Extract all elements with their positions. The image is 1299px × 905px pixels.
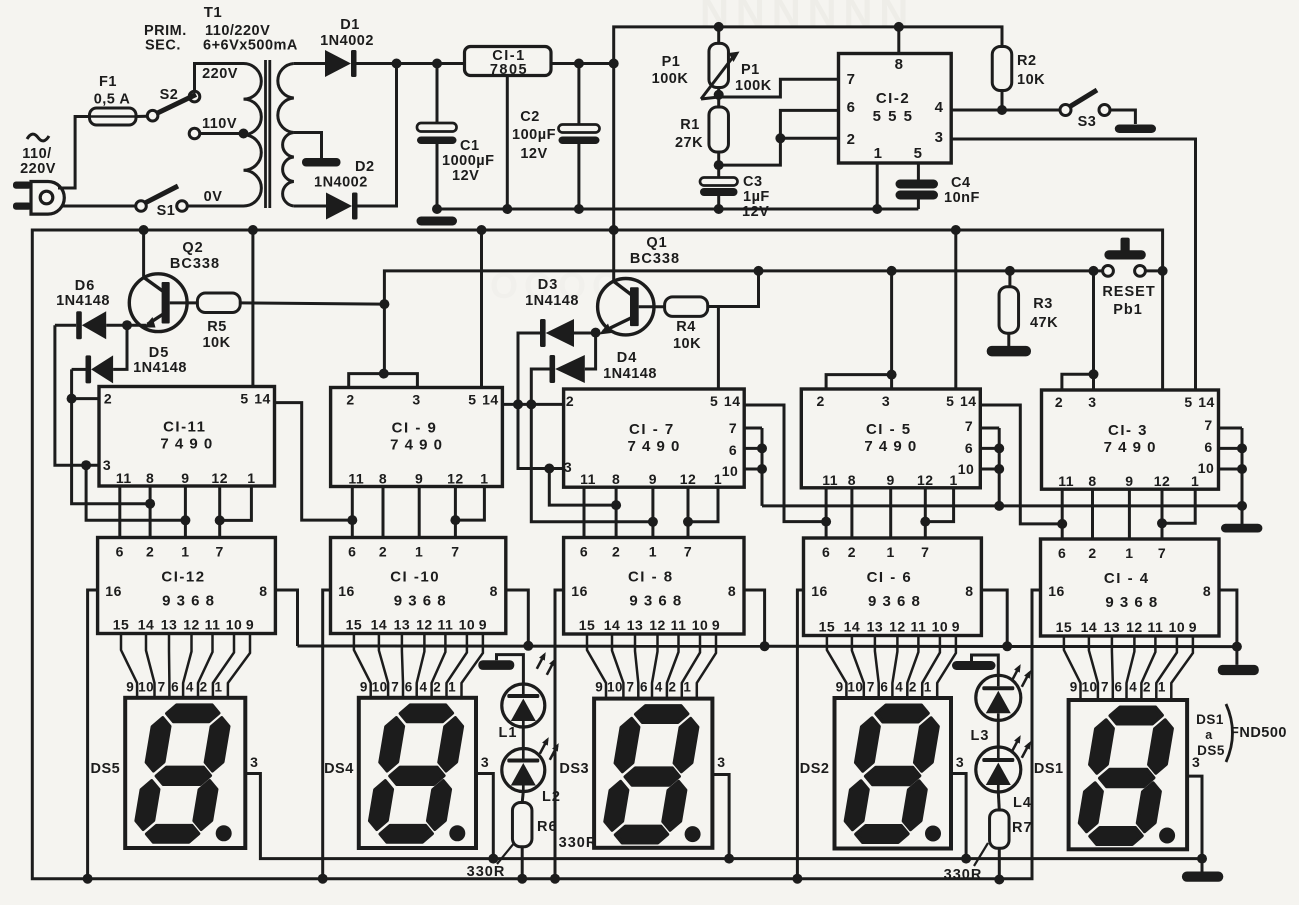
svg-text:CI - 7: CI - 7: [629, 421, 675, 438]
svg-text:10nF: 10nF: [944, 190, 980, 206]
wires CI-5 outputs to decoder: [825, 488, 828, 538]
wire R4 to reset bus: [708, 271, 759, 307]
svg-text:3: 3: [935, 129, 944, 146]
svg-text:9: 9: [836, 680, 844, 695]
svg-text:1: 1: [683, 680, 691, 695]
svg-text:7: 7: [626, 680, 634, 695]
svg-text:12V: 12V: [520, 146, 547, 162]
junction R2 bottom pin4: [997, 105, 1007, 115]
wire CI-12 pin8 to bus: [275, 590, 297, 646]
svg-text:11: 11: [348, 471, 364, 487]
svg-text:7: 7: [847, 71, 856, 88]
center tap ground bar: [302, 158, 341, 167]
svg-text:4: 4: [655, 680, 663, 695]
svg-text:16: 16: [1048, 583, 1065, 599]
light arrows L1: [537, 655, 545, 669]
svg-text:a: a: [1205, 728, 1213, 742]
junction ground rail CI-5: [994, 501, 1004, 511]
svg-text:4: 4: [1129, 680, 1137, 695]
svg-text:1: 1: [1125, 545, 1133, 561]
svg-text:L2: L2: [542, 789, 561, 805]
svg-text:CI - 5: CI - 5: [866, 421, 912, 438]
svg-text:220V: 220V: [202, 66, 238, 82]
wire CI-6 pin16 to +5V rail: [797, 590, 803, 879]
svg-text:D4: D4: [617, 350, 638, 366]
display DS3 FND500: [594, 699, 712, 848]
svg-text:7 4 9 0: 7 4 9 0: [390, 437, 443, 454]
LED L1: [502, 684, 545, 727]
svg-text:9: 9: [952, 619, 960, 635]
switch S1: [136, 201, 147, 212]
LED L3: [976, 675, 1021, 720]
wires CI-6 to DS2 segment fan: [827, 636, 847, 699]
wire DS3 pin3: [712, 775, 729, 859]
svg-text:11: 11: [580, 471, 596, 487]
svg-text:C4: C4: [951, 175, 971, 191]
svg-text:7: 7: [216, 544, 224, 560]
junction 555 pin1 ground: [872, 204, 882, 214]
svg-text:S1: S1: [157, 203, 176, 219]
svg-text:14: 14: [371, 617, 388, 633]
ground bar counters: [1221, 524, 1262, 533]
svg-text:C3: C3: [743, 174, 763, 190]
junction P1 top: [714, 22, 724, 32]
svg-text:CI-12: CI-12: [161, 569, 205, 586]
svg-text:8: 8: [379, 471, 387, 487]
svg-text:14: 14: [604, 617, 621, 633]
junction pin2 wire: [67, 394, 77, 404]
svg-text:10: 10: [459, 617, 476, 633]
svg-text:15: 15: [1056, 619, 1073, 635]
ground rail under counters: [762, 504, 1242, 507]
svg-text:220V: 220V: [20, 161, 56, 177]
svg-text:11: 11: [437, 617, 453, 633]
wire plug to fuse: [58, 117, 90, 189]
transformer T1 secondary winding: [278, 64, 294, 207]
svg-text:110/: 110/: [22, 146, 51, 162]
svg-text:P1: P1: [741, 62, 760, 78]
svg-text:7: 7: [1101, 680, 1109, 695]
IC CI-12 9368: [98, 538, 276, 634]
wire L3 to L4: [997, 721, 1000, 748]
svg-text:8: 8: [259, 583, 267, 599]
svg-text:2: 2: [566, 393, 574, 409]
svg-text:9: 9: [1070, 680, 1078, 695]
svg-text:12: 12: [649, 617, 666, 633]
potentiometer P1 100K: [717, 27, 720, 44]
svg-text:1: 1: [874, 145, 883, 162]
svg-text:7: 7: [921, 544, 929, 560]
svg-text:CI - 4: CI - 4: [1104, 570, 1150, 587]
diode D6 1N4148: [76, 311, 82, 339]
svg-text:14: 14: [844, 619, 861, 635]
svg-text:8: 8: [895, 56, 904, 73]
svg-text:C1: C1: [460, 138, 480, 154]
diode D3 1N4148: [540, 319, 546, 347]
wire 555 pin 4 to S3: [951, 109, 1060, 112]
transistor Q2 BC338: [142, 230, 145, 277]
svg-text:7: 7: [965, 418, 973, 434]
svg-text:15: 15: [819, 619, 836, 635]
svg-text:13: 13: [394, 617, 411, 633]
wire secondary bottom to D2: [294, 205, 326, 208]
wires CI-7 outputs to decoder: [583, 487, 586, 537]
svg-text:14: 14: [1081, 619, 1098, 635]
svg-text:9: 9: [479, 617, 487, 633]
wires CI-3 outputs to decoder: [1061, 489, 1064, 539]
wire D4 to pin9 line B: [531, 369, 653, 522]
AC plug: [31, 182, 64, 215]
junction CI-6 pin16 rail: [792, 874, 802, 884]
svg-text:6: 6: [405, 680, 413, 695]
svg-text:100K: 100K: [652, 71, 689, 87]
svg-text:8: 8: [848, 472, 856, 488]
svg-text:NNNNNN: NNNNNN: [700, 0, 915, 35]
fuse F1: [90, 108, 137, 125]
reset bridge CI-5 pins 2 3: [826, 375, 892, 389]
svg-text:10: 10: [1198, 460, 1215, 476]
svg-text:DS1: DS1: [1196, 712, 1224, 727]
junction reset R4 node: [754, 266, 764, 276]
junction rectifier output: [392, 59, 402, 69]
ground rail of power supply: [437, 208, 918, 211]
svg-text:D6: D6: [75, 278, 96, 294]
svg-text:8: 8: [1203, 583, 1211, 599]
svg-text:9: 9: [1189, 619, 1197, 635]
svg-text:DS1: DS1: [1034, 761, 1064, 777]
capacitor C4 10nF: [917, 163, 920, 180]
svg-text:DS5: DS5: [90, 761, 120, 777]
display DS5 FND500: [125, 698, 245, 848]
svg-text:7: 7: [451, 544, 459, 560]
svg-text:16: 16: [105, 583, 122, 599]
supply tap bar L3: [952, 661, 996, 670]
svg-text:2: 2: [848, 544, 856, 560]
svg-text:11: 11: [910, 619, 926, 635]
IC CI-11 7490: [99, 387, 275, 487]
svg-text:BC338: BC338: [170, 256, 220, 272]
svg-text:1N4148: 1N4148: [603, 366, 657, 382]
svg-text:0V: 0V: [204, 189, 223, 205]
svg-text:10: 10: [722, 463, 739, 479]
wire frame to CI-5 pin5: [954, 230, 957, 389]
junction frame CI-11 Vcc: [248, 225, 258, 235]
junction Q1 emitter: [591, 328, 601, 338]
svg-text:330R: 330R: [467, 864, 506, 880]
svg-text:15: 15: [346, 617, 363, 633]
svg-text:13: 13: [627, 617, 644, 633]
svg-text:9: 9: [126, 680, 134, 695]
svg-text:12: 12: [917, 472, 934, 488]
AC source symbol ~: [27, 134, 49, 141]
junction C2 top: [574, 59, 584, 69]
svg-text:10K: 10K: [673, 336, 701, 352]
transformer T1 core: [264, 60, 267, 208]
svg-text:7: 7: [867, 680, 875, 695]
svg-text:CI -10: CI -10: [390, 569, 440, 586]
svg-text:10: 10: [692, 617, 709, 633]
svg-text:6: 6: [729, 442, 737, 458]
svg-text:6: 6: [1204, 439, 1212, 455]
svg-text:330R: 330R: [944, 867, 983, 883]
svg-text:0,5 A: 0,5 A: [94, 92, 131, 108]
svg-text:Q1: Q1: [646, 235, 667, 251]
reset bridge CI-3 pins 2 3: [1062, 374, 1094, 390]
junction D4 pin14 bus: [526, 399, 536, 409]
wires CI-8 to DS3 segment fan: [587, 634, 606, 699]
svg-text:3: 3: [956, 754, 964, 770]
svg-text:P1: P1: [662, 54, 681, 70]
wire P1 to pin7: [719, 79, 839, 97]
resistor R1 27K: [717, 88, 720, 108]
svg-text:12V: 12V: [742, 204, 769, 220]
svg-text:2: 2: [433, 680, 441, 695]
wire plug to S1: [62, 205, 136, 208]
junction pin2 wire: [775, 133, 785, 143]
svg-text:14: 14: [724, 393, 741, 409]
svg-text:7: 7: [1158, 545, 1166, 561]
wires CI-12 to DS5 segment fan: [121, 634, 137, 698]
pushbutton RESET Pb1: [1103, 266, 1114, 277]
svg-text:6: 6: [640, 680, 648, 695]
ground bar decoder bus: [1218, 665, 1259, 675]
svg-text:6: 6: [847, 99, 856, 116]
svg-text:10: 10: [372, 680, 388, 695]
svg-text:3: 3: [564, 459, 572, 475]
wire Q2 emitter node: [106, 324, 146, 327]
svg-text:11: 11: [671, 617, 687, 633]
svg-text:8: 8: [146, 470, 154, 486]
IC CI-8 9368: [564, 538, 744, 635]
svg-text:12: 12: [211, 470, 228, 486]
junction 110V tap: [239, 129, 249, 139]
svg-text:7: 7: [158, 680, 166, 695]
svg-text:L1: L1: [499, 725, 518, 741]
LED L2: [502, 749, 545, 792]
wire pin 2 stub: [780, 137, 838, 140]
svg-text:8: 8: [612, 471, 620, 487]
svg-text:3: 3: [882, 393, 890, 409]
svg-text:7: 7: [684, 544, 692, 560]
svg-text:14: 14: [482, 392, 499, 408]
svg-text:110V: 110V: [202, 116, 237, 132]
svg-text:FND500: FND500: [1230, 725, 1287, 741]
junction frame Q2 collector: [139, 225, 149, 235]
svg-text:9 3 6 8: 9 3 6 8: [629, 593, 682, 610]
junction C1 ground: [432, 204, 442, 214]
wire DS4 pin3: [476, 774, 493, 859]
wire frame to CI-9 pin5: [480, 230, 483, 388]
svg-text:13: 13: [867, 619, 884, 635]
wire CI-4 pin8 to bus and ground bar: [1219, 590, 1237, 665]
wire secondary center tap: [294, 133, 322, 159]
svg-text:1: 1: [924, 680, 932, 695]
junction line A pin8 CI-7: [611, 500, 621, 510]
wire D5 to Q2 emitter: [113, 325, 127, 369]
svg-text:9 3 6 8: 9 3 6 8: [868, 593, 921, 610]
junction line B pin9 CI-7: [648, 517, 658, 527]
svg-text:Q2: Q2: [182, 240, 203, 256]
link CI-3 pin12 to pin1: [1162, 489, 1195, 523]
wire pin3 to pin9 line B: [86, 465, 185, 520]
svg-text:9 3 6 8: 9 3 6 8: [394, 593, 447, 610]
wire L1 to L2: [522, 727, 525, 749]
svg-text:10: 10: [847, 680, 863, 695]
diode D2 1N4002: [326, 193, 352, 220]
svg-text:1: 1: [214, 680, 222, 695]
junction CI-1 ground: [502, 204, 512, 214]
svg-text:CI - 9: CI - 9: [392, 420, 438, 437]
wire 110V tap: [200, 132, 244, 135]
svg-text:6: 6: [965, 440, 973, 456]
svg-text:2: 2: [847, 131, 856, 148]
light arrows L4: [1012, 738, 1020, 752]
svg-text:7805: 7805: [490, 62, 528, 78]
svg-text:12: 12: [680, 471, 697, 487]
IC CI-10 9368: [331, 538, 506, 634]
junction R5 reset riser: [379, 299, 389, 309]
svg-text:1: 1: [448, 680, 456, 695]
svg-text:9: 9: [595, 680, 603, 695]
ground bar pin3 rail: [1201, 859, 1204, 872]
cascade CI-5 pin11 to CI-7 pin14: [744, 405, 826, 522]
svg-text:7 4 9 0: 7 4 9 0: [864, 438, 917, 455]
svg-text:13: 13: [161, 617, 178, 633]
svg-text:5 5 5: 5 5 5: [873, 108, 914, 125]
wire fuse to S2: [136, 115, 147, 118]
svg-text:3: 3: [1088, 394, 1096, 410]
svg-text:2: 2: [1055, 394, 1063, 410]
wire S1 to 0V tap: [187, 205, 243, 208]
svg-text:10: 10: [1081, 680, 1097, 695]
svg-text:1: 1: [949, 472, 957, 488]
svg-text:2: 2: [1143, 680, 1151, 695]
svg-text:1: 1: [1158, 680, 1166, 695]
wire S3 to ground bar: [1110, 110, 1135, 124]
svg-text:1N4002: 1N4002: [314, 175, 368, 191]
svg-text:12: 12: [889, 619, 906, 635]
svg-text:11: 11: [1058, 473, 1074, 489]
svg-text:11: 11: [822, 472, 838, 488]
wire secondary top to D1: [294, 62, 325, 65]
svg-text:6: 6: [348, 544, 356, 560]
junction CI-10 pin16 rail: [318, 874, 328, 884]
svg-text:R3: R3: [1033, 296, 1053, 312]
junction pin3 rail ground: [1197, 854, 1207, 864]
svg-text:5: 5: [946, 393, 954, 409]
wire 555 pin 3 output to CI-3 clock: [951, 139, 1195, 390]
svg-text:2: 2: [200, 680, 208, 695]
svg-text:1N4148: 1N4148: [56, 293, 110, 309]
svg-text:CI- 3: CI- 3: [1108, 422, 1148, 439]
svg-text:6: 6: [1114, 680, 1122, 695]
wire D5 to CI-11 pin2 and pin8 line A: [72, 369, 151, 503]
wire D3 to CI-7 pin2 bus and pin3: [518, 333, 564, 469]
svg-text:7: 7: [729, 420, 737, 436]
resistor R4 10K: [639, 305, 665, 308]
svg-text:100µF: 100µF: [512, 127, 556, 143]
wires CI-11 outputs to decoder: [118, 486, 121, 538]
junction frame Q1 collector: [609, 225, 619, 235]
resistor R6 330R: [522, 792, 523, 803]
svg-text:14: 14: [960, 393, 977, 409]
wire CI-1 ground pin: [506, 76, 509, 210]
svg-text:S3: S3: [1078, 114, 1097, 130]
IC CI-4 9368: [1041, 539, 1220, 636]
svg-text:10: 10: [1169, 619, 1186, 635]
svg-text:1: 1: [415, 544, 423, 560]
svg-text:D5: D5: [149, 345, 170, 361]
svg-text:11: 11: [116, 470, 132, 486]
junction R7 rail: [994, 875, 1004, 885]
junction reset to frame: [1158, 266, 1168, 276]
wire DS1 pin3: [1187, 776, 1202, 859]
IC CI-6 9368: [804, 538, 982, 636]
ground bar S3: [1115, 125, 1156, 134]
svg-text:6: 6: [822, 544, 830, 560]
svg-text:R1: R1: [680, 117, 700, 133]
cascade CI-3 pin11 to CI-5 pin14: [980, 405, 1062, 524]
svg-text:10K: 10K: [1017, 72, 1045, 88]
wire D2 output riser: [358, 64, 397, 207]
ground bar below C1: [417, 217, 458, 226]
svg-text:2: 2: [909, 680, 917, 695]
svg-text:2: 2: [146, 544, 154, 560]
wire CI-11 pin 2: [72, 397, 99, 400]
light arrows L2: [540, 740, 548, 754]
resistor R3 47K: [1008, 271, 1011, 287]
resistor R2 10K: [992, 47, 1012, 91]
link CI-11 pin12 to pin1: [220, 486, 252, 520]
svg-text:1N4148: 1N4148: [133, 360, 187, 376]
svg-text:12V: 12V: [452, 168, 479, 184]
junction pin3 line A riser: [544, 464, 554, 474]
junction CI-8 pin16 rail: [550, 874, 560, 884]
svg-text:10: 10: [958, 461, 975, 477]
svg-text:10: 10: [607, 680, 623, 695]
wire rectifier to CI-1: [397, 62, 465, 65]
display DS4 FND500: [359, 698, 476, 848]
svg-text:4: 4: [935, 99, 944, 116]
svg-text:BC338: BC338: [630, 251, 680, 267]
svg-text:7 4 9 0: 7 4 9 0: [1104, 439, 1157, 456]
svg-text:1N4002: 1N4002: [320, 33, 374, 49]
diode D5 1N4148: [86, 355, 92, 383]
svg-text:3: 3: [481, 754, 489, 770]
svg-text:C2: C2: [520, 109, 540, 125]
svg-text:16: 16: [811, 583, 828, 599]
wire D1 to node: [357, 62, 397, 65]
switch S3: [1060, 105, 1071, 116]
supply tap bar L1: [478, 660, 514, 670]
junction +5V riser top: [609, 59, 619, 69]
svg-text:9: 9: [181, 470, 189, 486]
svg-text:8: 8: [965, 583, 973, 599]
svg-text:SEC.: SEC.: [145, 38, 181, 54]
svg-text:R7: R7: [1012, 820, 1033, 836]
wire R1 bottom to pins 6 and 2: [719, 110, 839, 165]
switch S2: [147, 110, 158, 121]
ground bus of decoders: [298, 645, 1237, 649]
svg-text:CI - 6: CI - 6: [867, 569, 913, 586]
svg-text:DS5: DS5: [1197, 743, 1225, 758]
junction R6 rail: [517, 874, 527, 884]
capacitor C3 1uF: [700, 178, 738, 186]
link CI-5 pin12 to pin1: [925, 488, 953, 522]
IC CI-2 555 timer: [839, 54, 952, 164]
ground bar R3: [987, 346, 1031, 357]
svg-text:R4: R4: [676, 319, 696, 335]
